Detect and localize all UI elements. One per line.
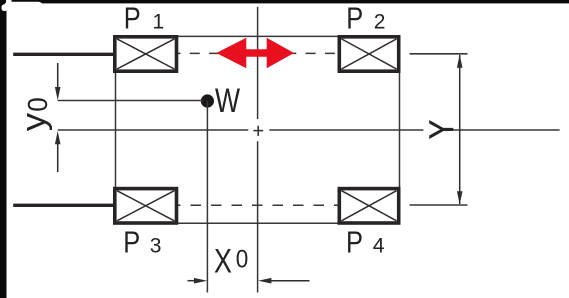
svg-text:3: 3 xyxy=(150,234,162,257)
node W dot xyxy=(201,94,214,107)
svg-text:P: P xyxy=(124,1,141,36)
dimension X0 left arrow xyxy=(188,278,208,284)
svg-text:2: 2 xyxy=(374,10,386,33)
component P4 crossed box xyxy=(339,189,398,223)
component P2 crossed box xyxy=(339,37,398,71)
dimension y0 lower arrow xyxy=(55,131,61,172)
dimension X0 right arrow xyxy=(258,278,309,284)
label P1 xyxy=(124,1,164,36)
wire: thick feed line to P1 xyxy=(13,53,114,56)
component P3 crossed box xyxy=(115,189,177,223)
wire: W horizontal line xyxy=(58,100,203,102)
wire: horizontal centerline middle segment xyxy=(269,129,423,131)
dimension y0 upper arrow xyxy=(55,63,61,100)
frame corner cutout xyxy=(2,0,44,11)
label X0 xyxy=(214,243,248,281)
dimension Y extension line bottom xyxy=(410,204,468,206)
svg-text:Y: Y xyxy=(422,120,461,140)
svg-text:P: P xyxy=(346,225,363,260)
svg-text:4: 4 xyxy=(373,234,385,257)
wire: dashed stroke axis row 1 xyxy=(178,52,338,54)
wire: bottom connector P3-P4 xyxy=(177,222,338,224)
svg-text:0: 0 xyxy=(22,97,53,112)
wire: left rail line P1-P3 xyxy=(115,72,117,188)
svg-text:y: y xyxy=(15,113,52,132)
wire: top connector P1-P2 xyxy=(177,35,338,37)
node: center cross xyxy=(253,126,263,136)
wire: horizontal centerline left segment xyxy=(58,129,249,131)
svg-text:P: P xyxy=(123,225,140,260)
svg-text:W: W xyxy=(215,82,240,120)
dimension Y extension line top xyxy=(410,53,468,55)
label P2 xyxy=(346,1,385,36)
frame left border xyxy=(0,0,7,298)
frame top border xyxy=(0,0,569,3)
label y0 (rotated) xyxy=(15,97,53,131)
label P3 xyxy=(123,225,161,260)
svg-text:X: X xyxy=(214,243,232,281)
dimension Y line with arrows xyxy=(457,54,463,204)
wire: vertical centerline upper xyxy=(257,7,259,119)
svg-text:P: P xyxy=(346,1,363,36)
wire: dashed stroke axis row 2 xyxy=(178,204,338,206)
wire: W drop line xyxy=(206,101,208,293)
svg-text:0: 0 xyxy=(236,246,249,274)
red stroke double arrow xyxy=(216,38,294,68)
component P1 crossed box xyxy=(115,37,177,71)
label P4 xyxy=(346,225,385,260)
wire: right rail line P2-P4 xyxy=(399,72,401,188)
wire: thick feed line to P3 xyxy=(13,204,114,207)
wire: vertical centerline lower xyxy=(257,141,259,292)
wire: horizontal centerline right segment xyxy=(453,129,560,131)
svg-text:1: 1 xyxy=(153,10,165,33)
